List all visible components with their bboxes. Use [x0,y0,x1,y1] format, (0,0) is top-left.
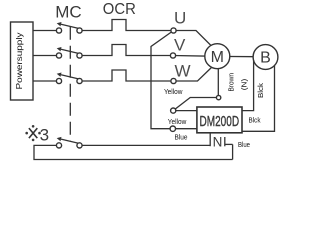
svg-text:N: N [213,134,223,149]
svg-text:Powersupply: Powersupply [15,33,24,90]
svg-text:U: U [174,9,186,28]
svg-text:DM200D: DM200D [200,113,240,130]
svg-text:Blck: Blck [249,116,261,125]
svg-text:(N): (N) [241,79,248,91]
svg-text:W: W [174,62,190,81]
svg-text:Blck: Blck [258,82,265,98]
svg-text:Yellow: Yellow [168,117,187,126]
svg-text:Blue: Blue [238,140,250,149]
svg-text:M: M [211,49,224,66]
svg-text:Blue: Blue [175,133,188,142]
svg-text:OCR: OCR [103,1,136,18]
svg-text:Brown: Brown [229,73,236,92]
svg-text:Yellow: Yellow [164,87,183,96]
svg-text:3: 3 [40,126,49,145]
svg-text:V: V [174,36,186,55]
svg-text:B: B [260,50,271,67]
svg-text:MC: MC [55,3,81,22]
